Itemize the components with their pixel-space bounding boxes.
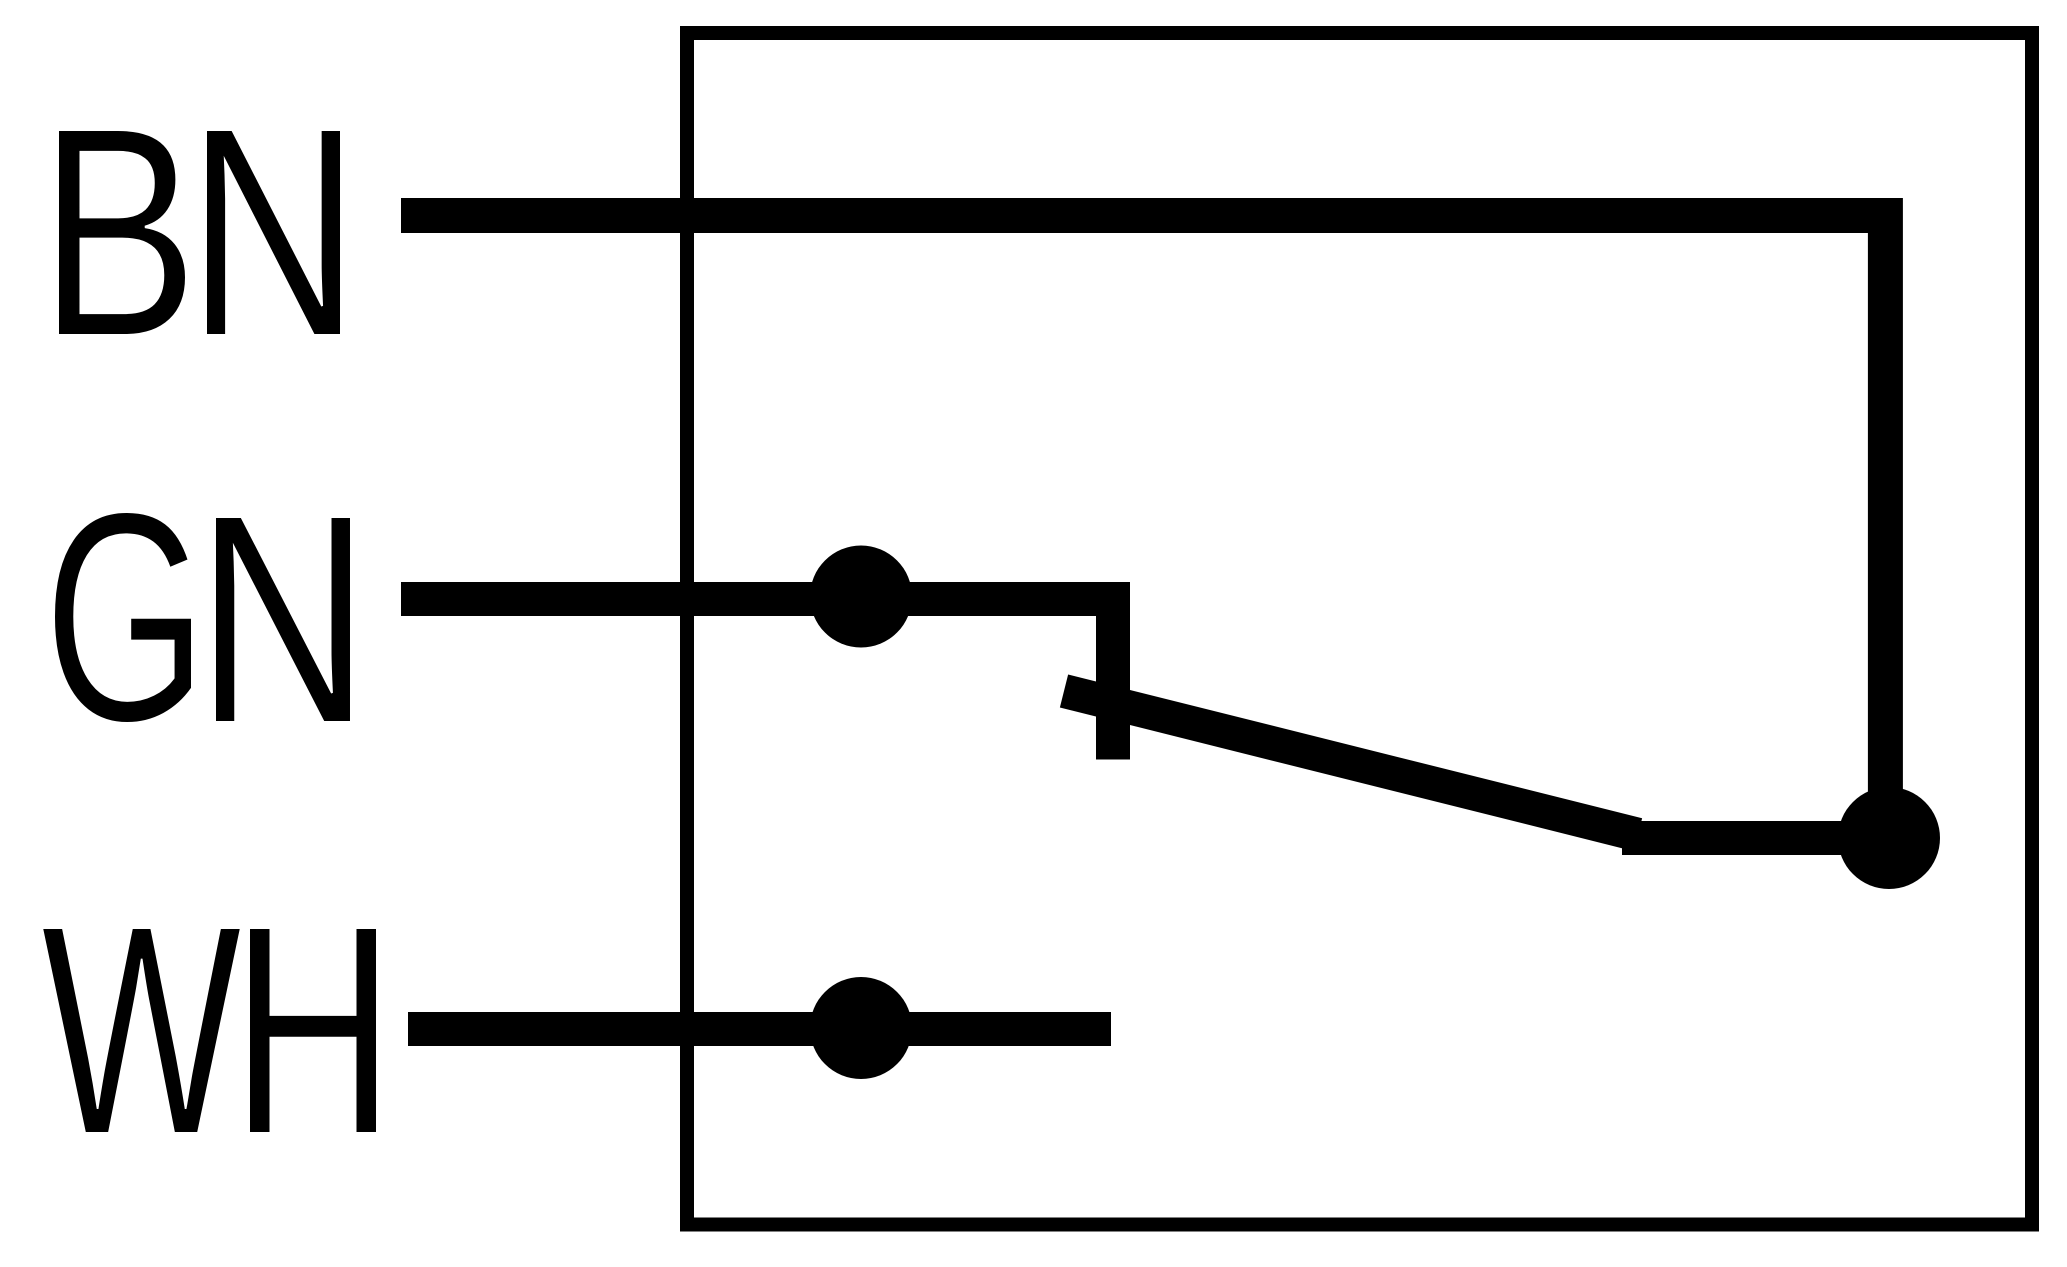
- terminal dot GN: [810, 546, 912, 648]
- label WH: [41, 864, 395, 1198]
- wire GN (green lead, horizontal then down to fixed contact): [401, 599, 1113, 760]
- wire WH (white lead stub): [408, 1012, 1111, 1046]
- switch housing box: [687, 33, 2032, 1225]
- switch arm horizontal segment (from BN pivot): [1622, 821, 1889, 855]
- svg-text:N: N: [195, 451, 371, 785]
- svg-text:N: N: [186, 65, 360, 399]
- svg-text:H: H: [230, 864, 395, 1197]
- label BN: [38, 65, 360, 399]
- svg-text:G: G: [44, 450, 208, 784]
- svg-text:B: B: [38, 66, 198, 399]
- svg-text:W: W: [41, 864, 243, 1197]
- label GN: [44, 450, 371, 786]
- junction dot BN pivot: [1838, 787, 1940, 889]
- wire BN (brown lead, horizontal then down inside box): [401, 216, 1885, 839]
- terminal dot WH: [810, 977, 912, 1079]
- switch arm diagonal (movable contact blade): [1064, 691, 1638, 835]
